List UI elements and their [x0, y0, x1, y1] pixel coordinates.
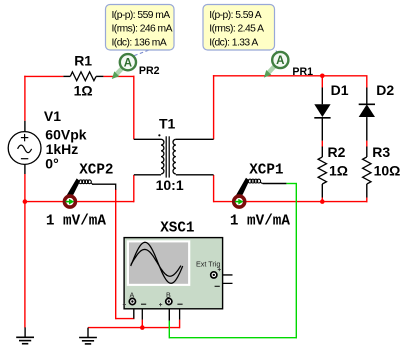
svg-text:1 mV/mA: 1 mV/mA [46, 214, 106, 230]
svg-text:XCP2: XCP2 [79, 162, 113, 178]
terminal A plus mark [123, 304, 126, 306]
terminal B plus mark [159, 304, 162, 306]
wire XCP2 output to scope A [116, 318, 135, 320]
wire scope B minus red stub [179, 320, 181, 329]
wire green up to scope B [168, 321, 170, 339]
wire ground2 to scope minus pins [88, 327, 180, 329]
wire green bottom horizontal [169, 337, 297, 339]
svg-text:A: A [276, 55, 284, 67]
scope waveform trace 2 [131, 249, 181, 276]
wire XCP2 output black [92, 184, 116, 190]
terminal A minus mark [141, 303, 146, 305]
wire V1 bottom lead [24, 164, 26, 174]
node junction scope ground [140, 325, 145, 330]
svg-text:60Vpk: 60Vpk [45, 127, 86, 143]
wire ext-trig plus stub [216, 274, 233, 276]
probe PR2 ammeter [112, 50, 149, 79]
wire V1 top [24, 76, 26, 121]
wire D1 anode lead [321, 88, 323, 105]
tooltip PR1 measurements [203, 5, 275, 51]
ext trig plus mark [218, 269, 221, 271]
terminal B [166, 298, 172, 304]
node junction V1 bottom [23, 199, 28, 204]
wire D2-R3 mid stub [366, 141, 368, 147]
wire R2 bottom stub [321, 198, 323, 202]
probe PR1 ammeter [264, 51, 289, 78]
wire R1 to corner [103, 75, 134, 77]
wire XCP2 output vertical [115, 189, 117, 319]
wire R2 top lead [321, 147, 323, 158]
wire transformer bottom-right vertical [213, 175, 215, 202]
wire scope A minus stub [134, 302, 143, 319]
svg-text:10:1: 10:1 [156, 177, 184, 193]
svg-text:I(p-p): 559 mA: I(p-p): 559 mA [112, 10, 171, 21]
wire R1 right lead [96, 75, 103, 77]
tooltip PR2 measurements [106, 5, 175, 51]
ground scope [79, 328, 97, 344]
svg-text:Ext Trig: Ext Trig [196, 259, 220, 268]
wire R3 top lead [366, 147, 368, 158]
wire D1 top stub [321, 76, 323, 88]
transformer T1 [158, 134, 176, 177]
current probe XCP2 [64, 178, 93, 207]
wire transformer bottom-left vertical [133, 175, 135, 202]
svg-text:10Ω: 10Ω [374, 162, 401, 178]
node junction D1 top [320, 74, 325, 79]
svg-text:0°: 0° [45, 156, 58, 172]
wire primary top vertical [133, 76, 135, 140]
svg-text:R1: R1 [74, 53, 92, 69]
oscilloscope screen [127, 240, 191, 286]
svg-text:PR1: PR1 [292, 66, 313, 78]
resistor R2 [318, 157, 326, 184]
svg-text:R3: R3 [372, 144, 390, 160]
wire R1 left lead [63, 75, 70, 77]
diode D1 [314, 104, 330, 118]
wire ext-trig minus stub [214, 277, 232, 284]
svg-text:XCP1: XCP1 [249, 162, 283, 178]
wire R2 bottom lead [321, 184, 323, 198]
svg-text:A: A [124, 57, 132, 69]
diode D2 [359, 104, 375, 117]
wire top-right horizontal [213, 75, 368, 77]
svg-text:I(dc): 1.33 A: I(dc): 1.33 A [209, 38, 258, 49]
wire green vertical [295, 184, 297, 339]
wire D2 top stub [366, 76, 368, 88]
svg-text:I(p-p): 5.59 A: I(p-p): 5.59 A [209, 10, 262, 21]
wire secondary bottom horizontal [214, 201, 368, 203]
ground left [16, 327, 34, 343]
oscilloscope XSC1 body [124, 238, 223, 309]
terminal B minus mark [177, 303, 182, 305]
wire primary bottom horizontal [25, 201, 134, 203]
wire top-left from V1 to R1 [24, 75, 63, 77]
source V1 [8, 132, 41, 165]
wire D2 anode lead [366, 117, 368, 141]
terminal A [129, 298, 135, 304]
wire T1 bottom-left lead [134, 174, 161, 176]
wire secondary top vertical [213, 75, 215, 139]
wire V1 top lead [24, 121, 26, 132]
wire D1-R2 mid stub [321, 141, 323, 147]
svg-text:1 mV/mA: 1 mV/mA [230, 214, 290, 230]
svg-text:1Ω: 1Ω [329, 162, 348, 178]
wire D2 cathode lead [366, 88, 368, 105]
wire scope B minus stub [170, 302, 180, 319]
svg-text:XSC1: XSC1 [160, 220, 194, 236]
svg-text:I(dc): 136 mA: I(dc): 136 mA [112, 38, 167, 49]
wire T1 top-right lead [176, 138, 214, 140]
wire R3 bottom lead [366, 184, 368, 198]
ext trig minus mark [215, 285, 220, 287]
node junction R2 bottom [320, 199, 325, 204]
wire green XCP1 to junction [286, 183, 297, 185]
wire R3 bottom stub [366, 198, 368, 203]
scope waveform trace 1 [131, 242, 183, 283]
wire scope A plus stub [133, 303, 135, 319]
svg-text:R2: R2 [328, 144, 346, 160]
wire D1 cathode lead [321, 118, 323, 141]
wire V1 bottom [24, 174, 26, 202]
svg-text:D2: D2 [376, 82, 394, 98]
svg-text:PR2: PR2 [139, 65, 160, 77]
svg-text:I(rms): 246 mA: I(rms): 246 mA [112, 24, 173, 35]
current probe XCP1 [234, 178, 263, 207]
svg-text:D1: D1 [331, 82, 349, 98]
wire XCP1 output black [263, 183, 287, 185]
wire scope A minus red stub [141, 320, 143, 328]
svg-text:I(rms): 2.45 A: I(rms): 2.45 A [209, 24, 264, 35]
wire T1 top-left lead [134, 138, 161, 140]
resistor R3 [363, 157, 371, 184]
wire ground drop left [24, 202, 26, 328]
resistor R1 [70, 72, 96, 81]
wire T1 bottom-right lead [176, 174, 214, 176]
wire scope B plus stub [168, 303, 170, 321]
terminal Ext Trig [211, 272, 217, 278]
svg-text:T1: T1 [159, 115, 176, 131]
svg-text:V1: V1 [44, 108, 61, 124]
svg-text:1Ω: 1Ω [74, 83, 93, 99]
